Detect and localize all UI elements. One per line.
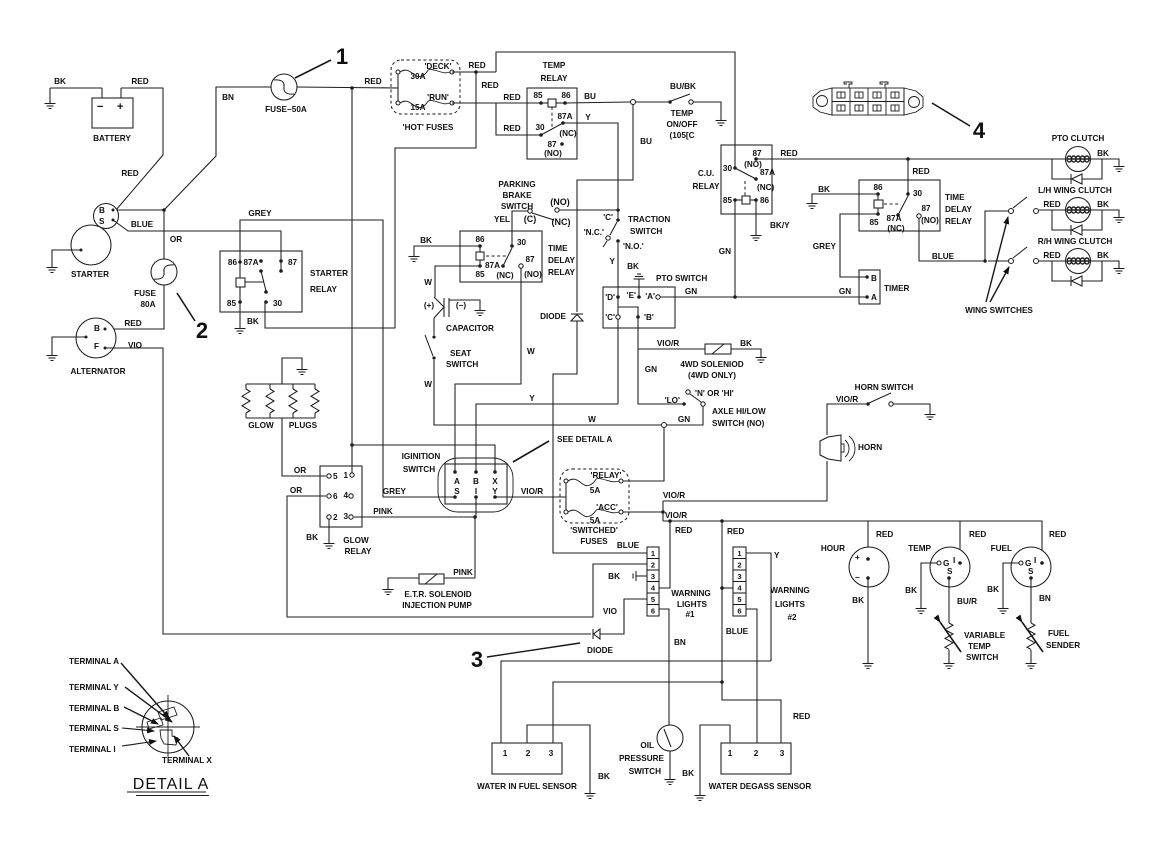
svg-text:BK: BK — [247, 317, 259, 326]
svg-text:87: 87 — [921, 204, 931, 213]
svg-text:B: B — [473, 477, 479, 486]
node junction GN/CU85 — [733, 295, 737, 299]
callout line SEE DETAIL A — [513, 441, 549, 462]
speaker HORN — [820, 435, 882, 461]
wire BK R/H clutch to ground — [1090, 261, 1119, 266]
svg-text:HORN: HORN — [858, 443, 882, 452]
svg-text:3: 3 — [737, 572, 741, 581]
ground (TDR right) — [807, 201, 818, 209]
svg-text:VIO/R: VIO/R — [663, 491, 685, 500]
svg-text:PTO SWITCH: PTO SWITCH — [656, 274, 707, 283]
svg-text:BK: BK — [1097, 200, 1109, 209]
svg-text:TERMINAL B: TERMINAL B — [69, 704, 119, 713]
svg-text:RELAY: RELAY — [548, 268, 576, 277]
svg-text:RED: RED — [121, 169, 138, 178]
svg-text:TEMP: TEMP — [543, 61, 566, 70]
node junction RED — [350, 86, 354, 90]
svg-text:2: 2 — [737, 561, 741, 570]
svg-text:85: 85 — [227, 299, 237, 308]
svg-text:(+): (+) — [424, 301, 435, 310]
svg-text:RED: RED — [912, 167, 929, 176]
wire horn switch to ground — [893, 404, 930, 412]
wire BK temp G to ground — [921, 563, 937, 606]
timer TIMER — [859, 270, 910, 304]
svg-text:87A: 87A — [485, 261, 500, 270]
svg-text:−: − — [855, 573, 860, 582]
svg-text:VIO: VIO — [603, 607, 618, 616]
wire VIO WL1 pin5 to diode — [600, 599, 647, 634]
svg-text:1: 1 — [343, 471, 348, 480]
svg-text:VIO/R: VIO/R — [665, 511, 687, 520]
svg-text:86: 86 — [475, 235, 485, 244]
diode D4 flyback R/H — [1052, 261, 1102, 286]
svg-text:STARTER: STARTER — [71, 270, 109, 279]
wire BK starter relay 85 to ground — [239, 302, 241, 326]
wire RED wing switch to L/H clutch — [1039, 209, 1066, 211]
connector block icon — [813, 82, 923, 115]
svg-text:W: W — [424, 380, 432, 389]
svg-text:(NO): (NO) — [524, 270, 542, 279]
wire BK solenoid to ground — [731, 349, 761, 355]
svg-text:PRESSURE: PRESSURE — [619, 754, 665, 763]
svg-text:BK: BK — [905, 586, 917, 595]
svg-text:BK: BK — [682, 769, 694, 778]
svg-text:DELAY: DELAY — [548, 256, 576, 265]
svg-text:C.U.: C.U. — [698, 169, 714, 178]
svg-text:OR: OR — [294, 466, 306, 475]
svg-text:Y: Y — [610, 257, 616, 266]
ground (horn switch) — [925, 412, 936, 420]
wire ETR to ground — [388, 578, 419, 587]
clutch coil L/H WING CLUTCH — [1066, 198, 1091, 223]
svg-text:'DECK': 'DECK' — [424, 62, 451, 71]
svg-text:RED: RED — [969, 530, 986, 539]
svg-text:BLUE: BLUE — [932, 252, 955, 261]
svg-text:W: W — [588, 415, 596, 424]
wire top bus to C.U. relay 30 — [496, 52, 735, 168]
wire RED wing switch to R/H clutch — [1039, 260, 1066, 262]
gauge HOUR meter — [821, 544, 889, 587]
svg-text:GREY: GREY — [813, 242, 837, 251]
svg-text:X: X — [492, 477, 498, 486]
svg-text:BU: BU — [584, 92, 596, 101]
svg-text:TRACTION: TRACTION — [628, 215, 670, 224]
svg-text:'RUN': 'RUN' — [427, 93, 449, 102]
resistors GLOW PLUGS — [242, 358, 319, 430]
svg-text:WATER IN FUEL SENSOR: WATER IN FUEL SENSOR — [477, 782, 577, 791]
svg-text:'N.O.': 'N.O.' — [623, 242, 644, 251]
relay K5 C.U. RELAY — [693, 145, 776, 214]
svg-text:6: 6 — [737, 607, 741, 616]
svg-text:RED: RED — [675, 526, 692, 535]
svg-text:GN: GN — [645, 365, 657, 374]
diode D3 flyback L/H — [1052, 210, 1102, 235]
svg-text:OIL: OIL — [640, 741, 654, 750]
wire node to axle switch — [667, 406, 703, 425]
wire glow relay 2 to ground — [328, 519, 330, 541]
svg-text:INJECTION PUMP: INJECTION PUMP — [402, 601, 472, 610]
svg-text:GREY: GREY — [248, 209, 272, 218]
wire RED fuse80A to alternator B — [105, 285, 164, 329]
svg-text:A: A — [454, 477, 460, 486]
svg-text:(NC): (NC) — [887, 224, 905, 233]
switch OIL PRESSURE SWITCH — [619, 725, 683, 776]
svg-text:RELAY: RELAY — [345, 547, 373, 556]
svg-text:6: 6 — [651, 607, 655, 616]
wire BK water degass 1 to ground — [700, 725, 730, 793]
wire node down to relay fuse — [623, 428, 664, 481]
wire node to ignition X — [352, 445, 495, 472]
svg-text:87: 87 — [752, 149, 762, 158]
svg-text:RED: RED — [503, 124, 520, 133]
svg-text:RED: RED — [780, 149, 797, 158]
ground (ETR) — [383, 587, 394, 595]
ground (R/H clutch) — [1114, 266, 1125, 274]
svg-text:TEMP: TEMP — [671, 109, 694, 118]
wire starter B to node — [113, 209, 164, 211]
switch SEAT SWITCH — [424, 318, 478, 389]
svg-text:RED: RED — [1043, 200, 1060, 209]
svg-text:87: 87 — [547, 140, 557, 149]
svg-text:LIGHTS: LIGHTS — [775, 600, 806, 609]
svg-text:BK: BK — [852, 596, 864, 605]
svg-text:30: 30 — [273, 299, 283, 308]
wire BK battery — [50, 87, 102, 89]
svg-text:VIO/R: VIO/R — [521, 487, 543, 496]
callout line 4 — [932, 103, 970, 126]
wire BK TDR right 86 to ground — [812, 194, 878, 201]
wire GN PTO A to timer A — [660, 296, 865, 298]
svg-text:Y: Y — [585, 113, 591, 122]
wire deck node down to starter relay 30 feed — [265, 72, 476, 328]
wire RED CU 87 to PTO clutch — [756, 158, 1066, 160]
switch wing L/H — [1009, 197, 1039, 214]
svg-text:(NC): (NC) — [757, 183, 775, 192]
alternator ALT1 — [70, 318, 125, 376]
svg-text:SWITCH: SWITCH — [629, 767, 661, 776]
wire WL2 pin4 stub — [722, 587, 733, 589]
wire RED to WL2 pin4 and water degass 3 — [722, 521, 781, 743]
svg-text:DELAY: DELAY — [945, 205, 973, 214]
svg-text:RED: RED — [364, 77, 381, 86]
svg-text:I: I — [953, 556, 955, 565]
svg-text:PLUGS: PLUGS — [289, 421, 318, 430]
wire bottom bus to water in fuel 1 — [501, 661, 771, 743]
ground (L/H clutch) — [1114, 215, 1125, 223]
wire BU/R temp S to sender — [948, 578, 950, 623]
svg-text:5: 5 — [333, 472, 338, 481]
svg-text:ALTERNATOR: ALTERNATOR — [70, 367, 125, 376]
svg-text:I: I — [475, 487, 477, 496]
svg-text:TERMINAL A: TERMINAL A — [69, 657, 119, 666]
ground (PTO clutch) — [1114, 164, 1125, 172]
svg-text:BK: BK — [608, 572, 620, 581]
svg-text:87A: 87A — [886, 214, 901, 223]
ground (CU relay) — [751, 233, 762, 241]
svg-text:BK: BK — [54, 77, 66, 86]
relay K4 GLOW RELAY — [320, 466, 372, 556]
wire VIO/R upper to horn — [663, 461, 827, 501]
diode D2 flyback PTO — [1052, 159, 1102, 184]
svg-text:'C': 'C' — [605, 313, 615, 322]
node junction BLUE — [983, 259, 987, 263]
ground (glow plugs) — [297, 367, 308, 375]
svg-text:BK: BK — [740, 339, 752, 348]
svg-text:RED: RED — [1049, 530, 1066, 539]
wire BK L/H clutch to ground — [1090, 210, 1119, 215]
ground (TDR left) — [409, 254, 420, 262]
svg-text:(NC): (NC) — [552, 217, 571, 227]
wire PTO E to inverted ground (BK) — [627, 262, 644, 297]
svg-text:S: S — [947, 567, 953, 576]
switch IGINITION SWITCH — [402, 452, 513, 512]
svg-text:#1: #1 — [685, 610, 695, 619]
svg-text:OR: OR — [170, 235, 182, 244]
svg-text:3: 3 — [343, 512, 348, 521]
svg-text:SWITCH (NO): SWITCH (NO) — [712, 419, 765, 428]
svg-text:TIME: TIME — [548, 244, 568, 253]
svg-text:I: I — [1034, 556, 1036, 565]
svg-text:SWITCH: SWITCH — [966, 653, 998, 662]
svg-text:GN: GN — [719, 247, 731, 256]
wire fuse-50A to hot fuses — [297, 87, 398, 88]
svg-text:2: 2 — [196, 318, 208, 343]
svg-text:3: 3 — [549, 749, 554, 758]
svg-text:Y: Y — [774, 551, 780, 560]
svg-text:SEAT: SEAT — [450, 349, 471, 358]
svg-text:30: 30 — [517, 238, 527, 247]
svg-text:PTO CLUTCH: PTO CLUTCH — [1052, 134, 1105, 143]
svg-text:(NO): (NO) — [550, 197, 570, 207]
connector WARNING LIGHTS #2 — [733, 547, 810, 622]
wire RED drop to temp I — [959, 521, 961, 563]
svg-text:WARNING: WARNING — [770, 586, 810, 595]
svg-text:GREY: GREY — [383, 487, 407, 496]
svg-text:BU/BK: BU/BK — [670, 82, 696, 91]
svg-text:3: 3 — [471, 647, 483, 672]
svg-text:RED: RED — [876, 530, 893, 539]
wire Y to ignition B — [476, 404, 618, 472]
capacitor C1 — [424, 297, 494, 333]
svg-text:85: 85 — [869, 218, 879, 227]
wire RED drop to hour + — [867, 521, 869, 559]
wire W seat switch to axle node — [434, 360, 661, 425]
svg-text:BATTERY: BATTERY — [93, 134, 131, 143]
svg-text:30: 30 — [913, 189, 923, 198]
wire diode to warning lights 1 pin1 (BLUE) — [553, 321, 647, 553]
ground (battery BK) — [45, 88, 56, 109]
svg-text:30: 30 — [723, 164, 733, 173]
svg-text:HORN SWITCH: HORN SWITCH — [855, 383, 914, 392]
wire VIO alternator F to diode (long) — [105, 348, 591, 634]
wire RED battery to starter B — [116, 88, 163, 210]
wire BLUE WL2 pin6 to water degass 2 — [746, 609, 757, 743]
svg-text:TERMINAL Y: TERMINAL Y — [69, 683, 119, 692]
svg-text:BLUE: BLUE — [726, 627, 749, 636]
battery — [92, 88, 133, 143]
svg-text:5: 5 — [651, 595, 655, 604]
svg-text:BU/R: BU/R — [957, 597, 977, 606]
svg-text:3: 3 — [780, 749, 785, 758]
svg-text:BK: BK — [1097, 149, 1109, 158]
svg-text:PARKING: PARKING — [498, 180, 535, 189]
svg-text:'A': 'A' — [645, 292, 655, 301]
svg-text:A: A — [871, 293, 877, 302]
wire W TDR 87 to ignition A — [455, 268, 521, 472]
node junction PINK/I — [473, 515, 477, 519]
svg-text:BN: BN — [1039, 594, 1051, 603]
wire BK hour to ground — [867, 578, 869, 661]
svg-text:87A: 87A — [557, 112, 572, 121]
node junction B/BN — [162, 208, 166, 212]
wire BN WL1 pin6 to oil pressure switch — [659, 609, 669, 733]
svg-text:FUSE−50A: FUSE−50A — [265, 105, 307, 114]
svg-text:F: F — [94, 342, 99, 351]
svg-text:TERMINAL X: TERMINAL X — [162, 756, 212, 765]
svg-text:4WD SOLENIOD: 4WD SOLENIOD — [680, 360, 743, 369]
diode D5 — [587, 629, 613, 655]
wire PTO C down to Y wire — [617, 319, 619, 404]
svg-text:RED: RED — [727, 527, 744, 536]
wire Y temp relay 87A to traction — [563, 123, 618, 208]
svg-text:STARTER: STARTER — [310, 269, 348, 278]
svg-text:30: 30 — [535, 123, 545, 132]
svg-text:RED: RED — [503, 93, 520, 102]
ground (starter) — [47, 265, 58, 273]
svg-text:BK: BK — [818, 185, 830, 194]
svg-text:1: 1 — [737, 549, 741, 558]
svg-text:RED: RED — [481, 81, 498, 90]
relay K2 TIME DELAY RELAY — [460, 231, 576, 282]
wire BK water in fuel 2 to ground — [527, 725, 590, 791]
wire to ground — [948, 650, 950, 661]
svg-text:PINK: PINK — [373, 507, 393, 516]
wire RED to TDR right 30 — [907, 159, 909, 194]
svg-text:'C': 'C' — [603, 213, 613, 222]
wire wing switch riser — [985, 211, 1008, 261]
svg-text:FUSE: FUSE — [134, 289, 156, 298]
fuse F2 80A — [134, 259, 177, 309]
ground (fuel sender) — [1026, 661, 1037, 669]
wire W TDR 85 to capacitor — [435, 266, 480, 297]
wire deck fuse out — [452, 71, 496, 73]
diode D1 — [540, 312, 583, 321]
solenoid 4WD SOLENIOD — [680, 344, 743, 380]
svg-text:87: 87 — [288, 258, 298, 267]
wire GREY starter relay 86 to ignition S — [240, 220, 455, 497]
svg-text:IGINITION: IGINITION — [402, 452, 441, 461]
node junction deck RED — [474, 70, 478, 74]
svg-text:(NC): (NC) — [496, 271, 514, 280]
svg-text:5A: 5A — [590, 516, 601, 525]
wire VIO/R to 4WD solenoid — [638, 348, 705, 350]
svg-text:BK: BK — [598, 772, 610, 781]
svg-text:87A: 87A — [243, 258, 258, 267]
wire GN CU 85 to GN bus — [734, 200, 736, 297]
svg-text:(4WD ONLY): (4WD ONLY) — [688, 371, 736, 380]
ground (starter relay) — [235, 326, 246, 334]
node connector GN/W — [662, 423, 667, 428]
svg-text:VIO/R: VIO/R — [657, 339, 679, 348]
rheostat FUEL SENDER — [1022, 622, 1080, 652]
svg-text:PINK: PINK — [453, 568, 473, 577]
switch TEMP ON/OFF — [667, 82, 698, 140]
svg-text:80A: 80A — [140, 300, 155, 309]
svg-text:'N' OR 'HI': 'N' OR 'HI' — [695, 389, 734, 398]
relay K1 TEMP RELAY — [527, 61, 577, 159]
clutch coil PTO CLUTCH — [1052, 134, 1105, 172]
svg-text:SWITCH: SWITCH — [403, 465, 435, 474]
svg-text:30A: 30A — [410, 72, 425, 81]
svg-text:GN: GN — [839, 287, 851, 296]
wire VIO/R lower bus to gauges — [663, 521, 1042, 563]
wire OR glow relay 6 to warning lights 1 pin2 — [287, 496, 647, 617]
svg-text:RELAY: RELAY — [945, 217, 973, 226]
svg-text:GN: GN — [685, 287, 697, 296]
svg-text:3: 3 — [651, 572, 655, 581]
detail A ignition terminal view — [69, 657, 212, 796]
svg-text:SWITCH: SWITCH — [446, 360, 478, 369]
svg-text:VIO/R: VIO/R — [836, 395, 858, 404]
wire BU down to diode — [577, 104, 633, 312]
svg-text:2: 2 — [333, 513, 338, 522]
wire BLUE TDR right 87 to wing switches — [919, 218, 983, 261]
svg-text:RED: RED — [124, 319, 141, 328]
ground (temp G) — [916, 606, 927, 614]
svg-text:DIODE: DIODE — [540, 312, 566, 321]
svg-text:SWITCH: SWITCH — [630, 227, 662, 236]
relay K6 TIME DELAY RELAY — [859, 180, 973, 233]
svg-text:87: 87 — [525, 255, 535, 264]
wire BU to temp switch — [636, 101, 668, 103]
ground (hour) — [863, 661, 874, 669]
svg-text:FUEL: FUEL — [991, 544, 1012, 553]
svg-text:BU: BU — [640, 137, 652, 146]
svg-text:YEL: YEL — [494, 215, 510, 224]
wire BN fuel S to sender — [1030, 578, 1032, 623]
svg-text:CAPACITOR: CAPACITOR — [446, 324, 494, 333]
svg-text:'B': 'B' — [644, 313, 654, 322]
svg-text:86: 86 — [561, 91, 571, 100]
svg-text:TEMP: TEMP — [908, 544, 931, 553]
svg-text:'ACC': 'ACC' — [596, 503, 618, 512]
svg-text:4: 4 — [973, 118, 986, 143]
rheostat VARIABLE TEMP SWITCH — [940, 622, 1006, 662]
switch wing R/H — [1009, 247, 1039, 264]
solenoid E.T.R. — [402, 574, 472, 610]
ground (WDS) — [695, 793, 706, 801]
svg-text:(NO): (NO) — [921, 216, 939, 225]
wire starter ground — [52, 250, 81, 265]
callout line 2 — [177, 293, 195, 321]
svg-text:RELAY: RELAY — [693, 182, 721, 191]
wire YEL parking brake to TDR 30 — [512, 211, 528, 246]
svg-text:RED: RED — [468, 61, 485, 70]
svg-text:B: B — [871, 274, 877, 283]
motor M1 STARTER — [71, 225, 111, 279]
wire OR node to fuse 80A — [163, 210, 165, 259]
wire BK TDR 86 to ground — [414, 246, 480, 254]
svg-text:TERMINAL S: TERMINAL S — [69, 724, 119, 733]
svg-text:R/H WING CLUTCH: R/H WING CLUTCH — [1038, 237, 1113, 246]
svg-text:RED: RED — [131, 77, 148, 86]
svg-text:WATER DEGASS SENSOR: WATER DEGASS SENSOR — [709, 782, 812, 791]
switch HORN SWITCH — [836, 383, 914, 406]
wire tap to temp relay 30 — [496, 103, 541, 135]
svg-text:85: 85 — [475, 270, 485, 279]
svg-text:#2: #2 — [787, 613, 797, 622]
svg-text:85: 85 — [533, 91, 543, 100]
